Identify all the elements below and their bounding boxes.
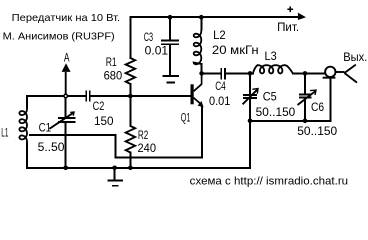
wire L2 top lead — [200, 17, 202, 29]
svg-text:C5: C5 — [263, 91, 277, 104]
node L2 top — [199, 15, 204, 20]
wire R2 bottom lead — [129, 153, 131, 168]
wire R1 top lead — [129, 17, 131, 58]
resistor R2 — [126, 126, 135, 152]
wire bottom ground rail — [27, 167, 250, 169]
node L3/C6/jack — [303, 71, 308, 76]
node C5 bottom — [248, 119, 253, 124]
power supply arrowhead — [298, 13, 306, 20]
node collector C4 — [199, 71, 204, 76]
svg-text:C3: C3 — [144, 31, 153, 44]
node C3 top — [168, 15, 173, 20]
variable capacitor C1 — [49, 112, 75, 129]
inductor L1 — [19, 108, 27, 144]
wire C6 top lead — [304, 73, 306, 94]
wire C5 top lead — [249, 73, 251, 94]
svg-text:схема с http:// ismradio.chat.: схема с http:// ismradio.chat.ru — [190, 176, 348, 188]
node base R1/R2/C2 — [128, 94, 133, 99]
wire R1 bottom lead — [129, 84, 131, 96]
wire emitter vertical — [201, 107, 203, 158]
wire main base wire right segment — [90, 95, 191, 97]
svg-text:А: А — [64, 51, 70, 64]
variable capacitor C5 — [243, 89, 258, 105]
node C1 at rail — [63, 166, 68, 171]
svg-text:20 мкГн: 20 мкГн — [212, 44, 259, 57]
junction donut node at C1/main wire — [63, 94, 68, 99]
node C4/C5/L3 — [248, 71, 253, 76]
svg-text:Q1: Q1 — [181, 111, 191, 124]
node C6 bottom — [303, 119, 308, 124]
svg-text:0.01: 0.01 — [209, 95, 230, 108]
node ground at rail — [112, 166, 117, 171]
svg-text:Вых.: Вых. — [343, 51, 367, 64]
wire C6 bottom lead — [304, 98, 306, 121]
svg-text:L3: L3 — [265, 50, 277, 63]
wire L3 right to node — [293, 72, 305, 74]
svg-text:C2: C2 — [93, 100, 105, 113]
variable capacitor C6 — [298, 90, 317, 105]
capacitor C3 plates — [161, 40, 179, 44]
svg-text:М. Анисимов (RU3PF): М. Анисимов (RU3PF) — [3, 32, 115, 43]
wire C5 node down to rail — [249, 121, 251, 168]
svg-text:L2: L2 — [213, 29, 226, 42]
wire left tank vertical — [26, 96, 28, 168]
svg-text:5..50: 5..50 — [38, 141, 65, 154]
svg-text:C4: C4 — [215, 80, 226, 93]
svg-text:680: 680 — [104, 70, 123, 83]
inductor L2 — [194, 30, 202, 65]
svg-text:R1: R1 — [106, 56, 117, 69]
antenna node A arrow — [65, 72, 67, 96]
wire C4 to C5 node — [225, 72, 253, 74]
wire L2 bottom lead — [200, 64, 202, 73]
inductor L3 — [253, 65, 293, 73]
svg-text:240: 240 — [138, 142, 157, 155]
wire C1 bottom lead — [65, 123, 67, 168]
svg-text:150: 150 — [94, 115, 114, 128]
capacitor C4 plates — [221, 68, 225, 80]
resistor R1 — [126, 58, 135, 84]
wire top supply rail — [130, 16, 298, 18]
ground symbol under C3 — [162, 76, 179, 83]
svg-text:Передатчик на 10 Вт.: Передатчик на 10 Вт. — [12, 13, 120, 24]
svg-text:C1: C1 — [39, 122, 52, 135]
wire R2 top lead — [129, 96, 131, 126]
svg-text:L1: L1 — [1, 127, 8, 140]
wire output jack stem — [329, 78, 331, 121]
wire C3 top lead — [169, 17, 171, 40]
svg-text:0.01: 0.01 — [145, 45, 168, 58]
wire collector node to C4 — [202, 72, 221, 74]
wire node to output jack — [305, 72, 325, 74]
wire C5 bottom lead — [249, 98, 251, 121]
transistor Q1 — [192, 73, 202, 104]
transistor Q1 emitter arrowhead — [198, 101, 204, 107]
node R2 at rail — [128, 166, 133, 171]
svg-text:50..150: 50..150 — [256, 106, 296, 119]
wire C1 top lead — [65, 96, 67, 118]
capacitor C2 plates — [86, 90, 90, 101]
wire bottom link C5-C6-jack — [250, 120, 330, 122]
svg-text:50..150: 50..150 — [297, 125, 337, 138]
ground symbol at bottom rail — [107, 168, 122, 186]
plus sign drawn — [287, 6, 293, 12]
wire C3 ground lead — [169, 44, 171, 75]
output jack circle — [323, 65, 357, 83]
svg-text:C6: C6 — [311, 101, 324, 114]
svg-text:Пит.: Пит. — [277, 21, 299, 34]
wire main base wire left segment — [27, 95, 85, 97]
svg-text:R2: R2 — [138, 129, 148, 142]
wire emitter tap line from L1 — [30, 135, 202, 158]
